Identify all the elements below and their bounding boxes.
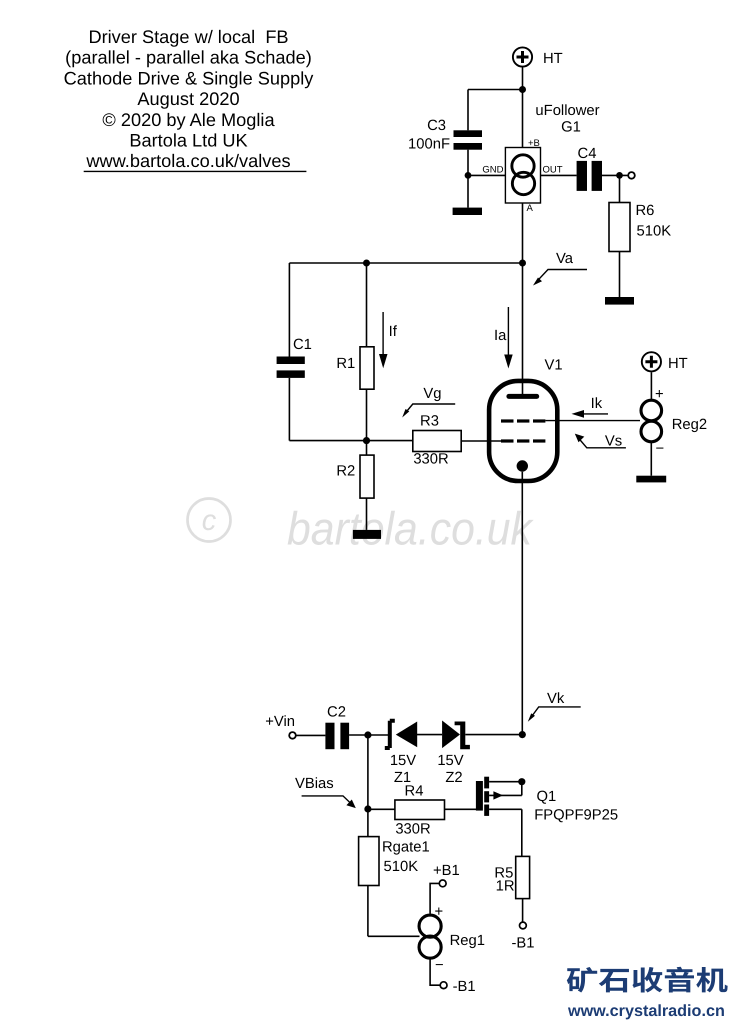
svg-text:+B: +B [528,138,540,149]
svg-text:Q1: Q1 [537,789,557,805]
svg-text:Vk: Vk [547,691,565,707]
svg-text:Rgate1: Rgate1 [382,840,430,856]
svg-text:−: − [435,958,444,974]
svg-text:100nF: 100nF [408,137,450,153]
svg-text:(parallel - parallel aka Schad: (parallel - parallel aka Schade) [65,48,312,68]
svg-text:+B1: +B1 [433,863,460,879]
svg-text:FPQPF9P25: FPQPF9P25 [534,808,618,824]
svg-text:Vg: Vg [423,386,441,402]
svg-text:-B1: -B1 [453,979,476,995]
svg-text:+Vin: +Vin [265,714,295,730]
svg-text:−: − [656,441,665,457]
svg-text:Reg2: Reg2 [672,417,707,433]
svg-text:15V: 15V [390,753,416,769]
svg-text:GND: GND [482,165,503,176]
svg-text:OUT: OUT [543,165,563,176]
svg-text:HT: HT [543,51,563,67]
svg-text:VBias: VBias [295,776,334,792]
svg-text:Z2: Z2 [445,770,462,786]
svg-text:uFollower: uFollower [535,103,599,119]
svg-text:G1: G1 [561,120,581,136]
svg-text:R6: R6 [636,203,655,219]
svg-text:August 2020: August 2020 [137,89,239,109]
svg-text:© 2020 by Ale Moglia: © 2020 by Ale Moglia [102,110,275,130]
svg-text:If: If [389,324,398,340]
svg-text:Va: Va [556,251,574,267]
svg-text:Driver Stage w/ local FB: Driver Stage w/ local FB [88,27,288,47]
svg-text:bartola.co.uk: bartola.co.uk [287,503,534,555]
svg-text:C3: C3 [427,118,446,134]
svg-text:15V: 15V [437,753,463,769]
svg-text:c: c [202,505,217,537]
svg-text:www.bartola.co.uk/valves: www.bartola.co.uk/valves [85,151,290,171]
svg-text:Reg1: Reg1 [450,933,485,949]
svg-text:C2: C2 [327,705,346,721]
svg-text:510K: 510K [384,859,419,875]
svg-text:1R: 1R [496,879,515,895]
svg-text:A: A [527,203,534,214]
svg-text:www.crystalradio.cn: www.crystalradio.cn [567,1002,725,1020]
svg-text:R3: R3 [420,414,439,430]
svg-text:R4: R4 [405,784,424,800]
svg-text:Vs: Vs [605,433,622,449]
svg-text:330R: 330R [413,452,448,468]
svg-text:HT: HT [668,356,688,372]
svg-text:-B1: -B1 [511,936,534,952]
svg-text:330R: 330R [395,822,430,838]
svg-text:R1: R1 [336,356,355,372]
svg-text:Bartola Ltd UK: Bartola Ltd UK [129,131,247,151]
svg-text:Ia: Ia [494,328,507,344]
svg-text:Cathode Drive & Single Supply: Cathode Drive & Single Supply [64,68,315,88]
svg-text:Ik: Ik [591,396,603,412]
svg-text:510K: 510K [637,224,672,240]
svg-text:C4: C4 [578,146,597,162]
svg-text:V1: V1 [545,358,563,374]
svg-text:R2: R2 [336,463,355,479]
svg-text:C1: C1 [293,337,312,353]
